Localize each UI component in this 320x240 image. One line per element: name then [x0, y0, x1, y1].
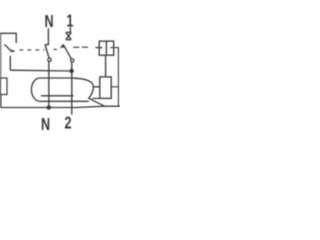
junction dot N test — [47, 105, 51, 109]
junction dot phase test — [69, 69, 73, 73]
mechanical linkage dash b — [82, 46, 88, 48]
test button T box — [99, 41, 114, 55]
svg-text:N: N — [41, 115, 50, 135]
switch S1 test-contact blade — [4, 44, 11, 50]
wire phase vertical — [71, 62, 73, 114]
secondary winding loop arc — [75, 78, 105, 106]
breaker symbol top bar — [66, 31, 72, 33]
wire test left vertical — [9, 56, 11, 70]
mechanical linkage dashed left — [20, 49, 45, 51]
wire A oval lower horizontal — [40, 100, 89, 102]
node N top wire — [47, 28, 49, 44]
breaker symbol X — [66, 33, 71, 40]
trip coil K1 box — [100, 77, 111, 99]
mechanical linkage dashed middle — [54, 48, 58, 50]
wire coil right stub — [111, 86, 118, 88]
contact 1 arrow tick — [60, 44, 65, 48]
contact N blade — [45, 45, 49, 58]
contact 1 blade — [63, 45, 71, 59]
mechanical linkage dash a — [73, 46, 79, 48]
test resistor R box — [0, 78, 7, 95]
breaker symbol bottom bar — [66, 39, 72, 41]
test button right stub — [110, 48, 118, 107]
wire coil to test button — [105, 55, 107, 77]
wire N pole vertical — [48, 62, 50, 109]
core bottom edge — [41, 95, 74, 97]
svg-text:2: 2 — [64, 114, 71, 134]
contact 1 pivot circle — [71, 59, 74, 62]
svg-text:1: 1 — [66, 11, 73, 31]
wire B resistor to N to right — [1, 95, 120, 108]
current transformer core left arc — [31, 78, 40, 101]
core top edge — [40, 77, 77, 79]
contact N fixed bar — [45, 44, 49, 46]
test button left stub — [96, 47, 103, 49]
winding lead upper — [93, 86, 100, 88]
wire test horizontal — [10, 69, 71, 72]
contact N pivot circle — [48, 58, 51, 61]
coil box bottom-left stub — [92, 97, 100, 99]
svg-text:N: N — [44, 12, 53, 32]
wire left-edge vertical — [0, 33, 2, 78]
wire top-left horizontal — [0, 33, 16, 43]
node 1 top wire — [69, 27, 71, 33]
test button plunger — [105, 41, 107, 55]
switch S1 contact tick — [10, 50, 14, 52]
